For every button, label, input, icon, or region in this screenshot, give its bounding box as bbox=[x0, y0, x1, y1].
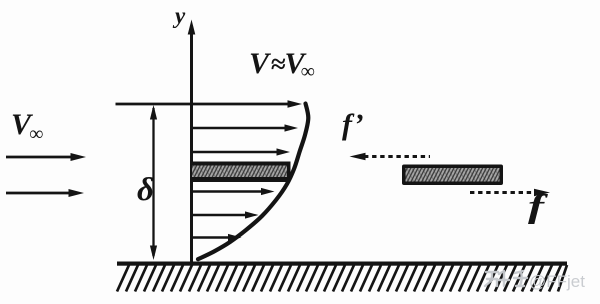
svg-text:≈: ≈ bbox=[271, 49, 286, 79]
watermark zhihu @FFjet bbox=[485, 271, 585, 291]
svg-text:y: y bbox=[172, 3, 186, 28]
svg-text:f’: f’ bbox=[342, 108, 364, 141]
velocity arrow row 7 bbox=[193, 236, 230, 238]
plate inside boundary layer (left plate) bbox=[192, 162, 291, 183]
velocity arrow row 2 bbox=[193, 127, 286, 129]
svg-text:δ: δ bbox=[137, 172, 154, 208]
svg-text:@FFjet: @FFjet bbox=[529, 272, 585, 291]
ground surface line bbox=[117, 262, 567, 266]
free-stream arrow upper left bbox=[6, 156, 72, 159]
ground hatching bbox=[117, 265, 567, 292]
boundary-layer edge line (free stream top line) bbox=[116, 103, 291, 106]
boundary-layer velocity profile curve bbox=[198, 104, 308, 260]
delta thickness dimension arrow bbox=[152, 108, 154, 256]
label V-infinity (free stream, left) bbox=[11, 108, 43, 145]
friction force arrow f-prime (dashed, pointing left) bbox=[364, 155, 430, 158]
free-stream arrow lower left bbox=[6, 192, 70, 195]
velocity arrow row 3 bbox=[193, 151, 278, 153]
svg-text:V: V bbox=[249, 47, 272, 80]
svg-text:∞: ∞ bbox=[29, 123, 43, 145]
velocity arrow row 5 bbox=[193, 190, 263, 192]
label V approx V-infinity bbox=[249, 47, 315, 83]
velocity arrow row 6 bbox=[193, 214, 247, 216]
friction force arrow f (dashed, pointing right) bbox=[470, 191, 535, 194]
svg-text:∞: ∞ bbox=[301, 61, 315, 83]
y axis bbox=[190, 32, 193, 262]
moving plate (right plate) bbox=[402, 165, 503, 186]
